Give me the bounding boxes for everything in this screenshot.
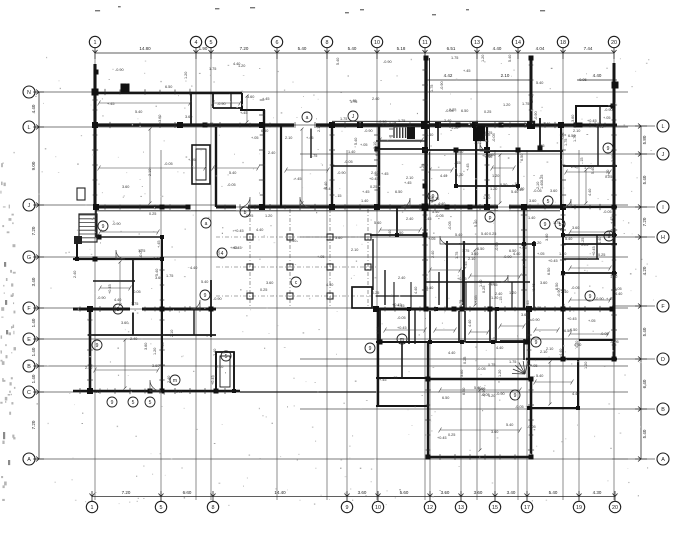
svg-text:-0.90: -0.90: [495, 242, 499, 251]
svg-text:1.75: 1.75: [166, 274, 173, 278]
svg-text:-0.05: -0.05: [164, 162, 173, 166]
svg-text:1: 1: [91, 505, 94, 511]
svg-text:2.10: 2.10: [216, 365, 223, 369]
svg-text:4.40: 4.40: [588, 189, 592, 196]
svg-text:4.40: 4.40: [562, 304, 566, 311]
svg-text:3.60: 3.60: [550, 189, 557, 193]
svg-text:3.40: 3.40: [507, 490, 516, 495]
svg-text:14.80: 14.80: [139, 46, 151, 51]
svg-text:4.40: 4.40: [559, 349, 563, 356]
svg-text:2.40: 2.40: [268, 151, 275, 155]
svg-text:3.60: 3.60: [529, 199, 536, 203]
svg-text:2.10: 2.10: [573, 129, 580, 133]
svg-text:1.20: 1.20: [503, 103, 510, 107]
svg-text:15: 15: [492, 505, 498, 511]
svg-text:4.40: 4.40: [414, 287, 418, 294]
svg-text:1.40: 1.40: [31, 347, 36, 356]
svg-text:4.42: 4.42: [444, 73, 453, 78]
svg-text:5.40: 5.40: [336, 58, 340, 65]
svg-text:-0.90: -0.90: [97, 296, 106, 300]
svg-text:+.05: +.05: [251, 136, 259, 140]
svg-text:m: m: [400, 337, 404, 343]
svg-text:-0.05: -0.05: [527, 425, 536, 429]
svg-text:1.75: 1.75: [522, 102, 529, 106]
svg-text:7.20: 7.20: [31, 226, 36, 235]
svg-text:3.60: 3.60: [266, 281, 273, 285]
svg-text:A: A: [661, 457, 665, 463]
svg-text:1.20: 1.20: [265, 214, 272, 218]
svg-text:-0.90: -0.90: [213, 297, 222, 301]
svg-text:1.75: 1.75: [455, 252, 459, 259]
svg-text:3.60: 3.60: [335, 236, 342, 240]
svg-text:+.05: +.05: [92, 390, 100, 394]
svg-text:1.20: 1.20: [498, 370, 502, 377]
svg-text:9: 9: [535, 340, 538, 346]
svg-text:0.25: 0.25: [448, 433, 455, 437]
svg-text:1.75: 1.75: [209, 67, 216, 71]
svg-text:1.20: 1.20: [584, 362, 588, 369]
svg-text:-0.05: -0.05: [515, 405, 524, 409]
svg-text:6.50: 6.50: [461, 109, 468, 113]
svg-text:4.40: 4.40: [468, 320, 472, 327]
svg-text:4.40: 4.40: [593, 73, 602, 78]
svg-text:4.40: 4.40: [388, 230, 392, 237]
svg-text:1.75: 1.75: [340, 117, 347, 121]
svg-text:9: 9: [346, 505, 349, 511]
svg-text:1.20: 1.20: [492, 174, 499, 178]
svg-text:+.45: +.45: [397, 304, 405, 308]
svg-text:-0.05: -0.05: [578, 78, 587, 82]
svg-text:-0.05: -0.05: [613, 287, 622, 291]
svg-text:4: 4: [195, 40, 198, 46]
svg-text:3.60: 3.60: [540, 281, 547, 285]
svg-text:5: 5: [547, 199, 550, 205]
svg-text:3.60: 3.60: [247, 95, 254, 99]
svg-text:4.40: 4.40: [31, 104, 36, 113]
svg-text:4.30: 4.30: [593, 490, 602, 495]
svg-text:+.45: +.45: [161, 343, 165, 351]
svg-text:+0.45: +0.45: [437, 436, 447, 440]
svg-text:+0.45: +0.45: [234, 229, 244, 233]
svg-text:3.60: 3.60: [122, 185, 129, 189]
svg-text:5.40: 5.40: [135, 110, 142, 114]
svg-text:1.75: 1.75: [459, 300, 463, 307]
svg-text:2.10: 2.10: [536, 182, 540, 189]
svg-text:1.20: 1.20: [559, 252, 566, 256]
svg-text:17: 17: [524, 505, 530, 511]
svg-text:L: L: [28, 125, 31, 131]
svg-text:+.05: +.05: [519, 246, 527, 250]
svg-text:1.20: 1.20: [488, 394, 495, 398]
svg-text:1.20: 1.20: [534, 241, 541, 245]
svg-text:2.10: 2.10: [611, 155, 615, 162]
svg-text:+.45: +.45: [526, 301, 530, 309]
svg-text:-.15: -.15: [499, 296, 503, 303]
svg-text:7.20: 7.20: [122, 490, 131, 495]
svg-text:6.50: 6.50: [395, 190, 402, 194]
svg-text:5.40: 5.40: [155, 269, 159, 276]
svg-text:1.20: 1.20: [153, 348, 157, 355]
svg-text:-.15: -.15: [580, 157, 584, 164]
svg-text:9: 9: [608, 234, 611, 240]
svg-text:5.40: 5.40: [474, 220, 478, 227]
svg-text:0.25: 0.25: [489, 232, 496, 236]
svg-text:6.51: 6.51: [447, 46, 456, 51]
svg-text:-0.05: -0.05: [152, 257, 161, 261]
svg-text:9: 9: [204, 293, 207, 299]
svg-text:6.50: 6.50: [520, 154, 524, 161]
svg-text:5: 5: [225, 354, 228, 360]
svg-text:-0.90: -0.90: [604, 108, 613, 112]
svg-text:6.50: 6.50: [261, 129, 268, 133]
svg-text:+.45: +.45: [206, 122, 214, 126]
svg-text:1.40: 1.40: [31, 318, 36, 327]
svg-text:1.75: 1.75: [350, 100, 357, 104]
svg-text:4.04: 4.04: [536, 46, 545, 51]
svg-text:+0.45: +0.45: [108, 284, 112, 294]
svg-text:19: 19: [576, 505, 582, 511]
svg-text:0.25: 0.25: [540, 175, 544, 182]
svg-text:6.50: 6.50: [500, 183, 507, 187]
svg-text:3.60: 3.60: [185, 115, 192, 119]
svg-text:+.45: +.45: [240, 111, 248, 115]
svg-text:+.45: +.45: [294, 177, 302, 181]
svg-text:13: 13: [474, 40, 480, 46]
svg-text:m: m: [173, 378, 177, 384]
svg-text:6.40: 6.40: [642, 379, 647, 388]
svg-text:-0.90: -0.90: [595, 297, 604, 301]
svg-text:+.05: +.05: [537, 252, 545, 256]
svg-text:6.50: 6.50: [456, 150, 463, 154]
svg-text:1.75: 1.75: [451, 56, 458, 60]
svg-text:+0.45: +0.45: [457, 277, 467, 281]
svg-text:6.50: 6.50: [442, 396, 449, 400]
svg-text:6.40: 6.40: [183, 490, 192, 495]
svg-text:+0.45: +0.45: [323, 187, 333, 191]
svg-text:-.15: -.15: [454, 161, 461, 165]
svg-text:+0.45: +0.45: [211, 375, 215, 385]
svg-text:3.60: 3.60: [158, 115, 162, 122]
svg-text:+.45: +.45: [230, 246, 238, 250]
svg-text:+.05: +.05: [428, 237, 436, 241]
svg-text:20: 20: [612, 505, 618, 511]
svg-text:-0.05: -0.05: [492, 133, 496, 142]
svg-text:2.10: 2.10: [285, 136, 292, 140]
svg-text:5.40: 5.40: [549, 490, 558, 495]
svg-text:-0.05: -0.05: [603, 210, 612, 214]
svg-text:+.45: +.45: [381, 172, 389, 176]
svg-text:+.05: +.05: [561, 133, 565, 141]
svg-text:5.40: 5.40: [536, 81, 543, 85]
svg-text:+.45: +.45: [464, 262, 468, 270]
svg-text:1.75: 1.75: [131, 302, 138, 306]
svg-text:5.40: 5.40: [642, 429, 647, 438]
svg-text:4.40: 4.40: [572, 392, 579, 396]
svg-text:3.60: 3.60: [571, 115, 575, 122]
svg-text:8: 8: [326, 40, 329, 46]
svg-text:7.20: 7.20: [31, 420, 36, 429]
svg-text:1.75: 1.75: [530, 96, 534, 103]
svg-text:1.40: 1.40: [543, 122, 550, 126]
svg-text:0.25: 0.25: [372, 291, 379, 295]
svg-text:-0.05: -0.05: [227, 183, 236, 187]
svg-text:6.50: 6.50: [289, 239, 296, 243]
svg-text:-.15: -.15: [391, 376, 398, 380]
svg-text:2.40: 2.40: [130, 337, 137, 341]
svg-text:A: A: [27, 457, 31, 463]
svg-text:4.40: 4.40: [493, 46, 502, 51]
svg-text:+0.45: +0.45: [369, 177, 379, 181]
svg-text:-0.90: -0.90: [531, 318, 540, 322]
svg-text:3.60: 3.60: [474, 490, 483, 495]
svg-text:6.50: 6.50: [568, 134, 575, 138]
svg-text:4.20: 4.20: [642, 266, 647, 275]
svg-text:12: 12: [427, 505, 433, 511]
svg-text:-.15: -.15: [512, 182, 519, 186]
svg-text:1.75: 1.75: [310, 154, 317, 158]
svg-text:5: 5: [132, 400, 135, 406]
svg-text:1.20: 1.20: [451, 126, 458, 130]
svg-text:E: E: [27, 337, 31, 343]
svg-text:-0.05: -0.05: [435, 214, 444, 218]
svg-text:5.40: 5.40: [591, 167, 595, 174]
svg-text:+.45: +.45: [516, 188, 524, 192]
svg-text:9: 9: [96, 343, 99, 349]
svg-text:3.60: 3.60: [521, 313, 528, 317]
svg-text:10: 10: [375, 505, 381, 511]
svg-text:+.05: +.05: [588, 319, 596, 323]
svg-text:N: N: [27, 90, 31, 96]
svg-text:+0.45: +0.45: [567, 317, 577, 321]
svg-text:4.40: 4.40: [598, 237, 602, 244]
svg-text:2.40: 2.40: [406, 217, 413, 221]
svg-text:J: J: [28, 203, 31, 209]
svg-text:+.45: +.45: [362, 190, 370, 194]
svg-text:10: 10: [374, 40, 380, 46]
svg-text:+0.45: +0.45: [548, 259, 558, 263]
svg-text:+.45: +.45: [463, 69, 471, 73]
svg-text:2.40: 2.40: [561, 290, 568, 294]
svg-text:0.25: 0.25: [260, 288, 267, 292]
svg-text:-0.90: -0.90: [557, 288, 561, 297]
svg-text:6.50: 6.50: [165, 85, 172, 89]
svg-text:5.40: 5.40: [506, 423, 513, 427]
svg-text:0.25: 0.25: [463, 357, 467, 364]
svg-text:D: D: [661, 357, 665, 363]
svg-text:4.40: 4.40: [574, 343, 581, 347]
svg-text:6.50: 6.50: [396, 231, 403, 235]
svg-text:3.60: 3.60: [460, 370, 464, 377]
svg-text:+0.45: +0.45: [532, 283, 536, 293]
svg-text:4.40: 4.40: [496, 346, 503, 350]
svg-text:-0.05: -0.05: [448, 221, 452, 230]
svg-text:5: 5: [210, 40, 213, 46]
svg-text:2.40: 2.40: [73, 271, 77, 278]
svg-text:1.40: 1.40: [479, 280, 483, 287]
svg-text:0.25: 0.25: [484, 110, 491, 114]
svg-text:B: B: [661, 407, 665, 413]
svg-text:-0.90: -0.90: [364, 129, 373, 133]
svg-text:2.10: 2.10: [540, 350, 547, 354]
svg-text:+.05: +.05: [188, 158, 196, 162]
svg-text:11: 11: [422, 40, 428, 46]
svg-text:6.50: 6.50: [376, 327, 380, 334]
svg-text:5.40: 5.40: [481, 232, 488, 236]
svg-text:+.45: +.45: [157, 241, 161, 249]
svg-text:-0.90: -0.90: [217, 102, 226, 106]
svg-text:1.40: 1.40: [483, 196, 490, 200]
svg-text:1.75: 1.75: [462, 249, 469, 253]
svg-text:0.25: 0.25: [370, 185, 377, 189]
svg-text:+.45: +.45: [404, 181, 412, 185]
svg-text:+.45: +.45: [262, 97, 270, 101]
svg-text:-0.05: -0.05: [610, 340, 619, 344]
svg-text:9: 9: [589, 294, 592, 300]
svg-text:G: G: [27, 255, 31, 261]
svg-text:a: a: [205, 221, 208, 227]
svg-text:-.15: -.15: [459, 241, 466, 245]
svg-text:2.40: 2.40: [398, 276, 405, 280]
svg-text:1: 1: [94, 40, 97, 46]
svg-text:14.40: 14.40: [274, 490, 286, 495]
svg-text:3.60: 3.60: [358, 490, 367, 495]
svg-text:1.20: 1.20: [238, 64, 245, 68]
svg-text:9: 9: [432, 194, 435, 200]
svg-text:1.20: 1.20: [491, 296, 498, 300]
svg-text:+.05: +.05: [530, 364, 538, 368]
svg-text:5.40: 5.40: [354, 138, 358, 145]
svg-text:6.50: 6.50: [462, 388, 466, 395]
svg-text:+0.45: +0.45: [397, 326, 407, 330]
svg-text:-0.05: -0.05: [397, 316, 406, 320]
svg-text:-0.90: -0.90: [337, 171, 346, 175]
svg-text:-.15: -.15: [335, 194, 342, 198]
svg-text:b: b: [244, 210, 247, 216]
svg-text:-0.90: -0.90: [383, 60, 392, 64]
svg-text:1.20: 1.20: [490, 187, 497, 191]
svg-text:C: C: [27, 390, 31, 396]
svg-text:5.40: 5.40: [642, 175, 647, 184]
svg-text:4.40: 4.40: [485, 155, 492, 159]
svg-text:3.60: 3.60: [144, 343, 148, 350]
svg-text:2.10: 2.10: [170, 330, 174, 337]
svg-text:1.20: 1.20: [481, 55, 485, 62]
svg-text:5.40: 5.40: [565, 237, 572, 241]
svg-text:5.40: 5.40: [455, 233, 462, 237]
svg-text:4.40: 4.40: [175, 390, 182, 394]
svg-text:4.40: 4.40: [256, 228, 263, 232]
svg-text:H: H: [661, 235, 665, 241]
svg-text:3: 3: [117, 307, 120, 313]
svg-text:1.40: 1.40: [610, 275, 617, 279]
svg-text:-0.05: -0.05: [571, 286, 580, 290]
svg-text:-0.05: -0.05: [344, 160, 353, 164]
svg-text:2.10: 2.10: [351, 248, 358, 252]
svg-text:5: 5: [149, 400, 152, 406]
svg-text:I: I: [662, 205, 664, 211]
svg-text:-0.90: -0.90: [534, 111, 538, 120]
svg-text:2.40: 2.40: [213, 349, 217, 356]
svg-text:2.40: 2.40: [431, 251, 435, 258]
svg-text:5.60: 5.60: [400, 490, 409, 495]
svg-text:6.50: 6.50: [477, 247, 484, 251]
svg-text:0.25: 0.25: [149, 212, 156, 216]
svg-text:2.10: 2.10: [468, 257, 475, 261]
svg-text:1.20: 1.20: [509, 291, 516, 295]
svg-text:2.40: 2.40: [371, 171, 378, 175]
svg-text:6.50: 6.50: [570, 328, 577, 332]
svg-text:5.40: 5.40: [229, 171, 236, 175]
svg-text:+.45: +.45: [466, 164, 470, 172]
svg-text:3.60: 3.60: [471, 252, 478, 256]
svg-text:18: 18: [560, 40, 566, 46]
svg-text:+.45: +.45: [107, 102, 115, 106]
svg-text:9: 9: [369, 346, 372, 352]
svg-text:3.60: 3.60: [491, 430, 498, 434]
svg-text:1.75: 1.75: [398, 119, 405, 123]
svg-text:+.45: +.45: [306, 136, 314, 140]
svg-text:-0.90: -0.90: [112, 222, 121, 226]
svg-text:5: 5: [160, 505, 163, 511]
svg-text:5.40: 5.40: [508, 55, 512, 62]
svg-text:4.40: 4.40: [438, 202, 445, 206]
svg-text:5.40: 5.40: [348, 46, 357, 51]
svg-text:3.40: 3.40: [31, 277, 36, 286]
svg-text:-.15: -.15: [491, 283, 498, 287]
svg-text:2.10: 2.10: [406, 176, 413, 180]
svg-text:13: 13: [458, 505, 464, 511]
svg-text:1.40: 1.40: [31, 374, 36, 383]
svg-text:+.45: +.45: [537, 144, 545, 148]
svg-text:-0.90: -0.90: [440, 81, 444, 90]
svg-text:8: 8: [212, 505, 215, 511]
svg-text:4.40: 4.40: [114, 298, 121, 302]
svg-text:5.40: 5.40: [642, 327, 647, 336]
svg-text:B: B: [27, 364, 31, 370]
svg-text:7.44: 7.44: [584, 46, 593, 51]
svg-text:5.40: 5.40: [374, 221, 381, 225]
svg-text:-0.05: -0.05: [139, 249, 143, 258]
svg-text:1.40: 1.40: [361, 199, 368, 203]
svg-text:4.40: 4.40: [326, 283, 333, 287]
svg-text:J: J: [662, 152, 665, 158]
svg-text:9: 9: [102, 224, 105, 230]
svg-text:1.75: 1.75: [479, 139, 486, 143]
svg-text:+.05: +.05: [475, 121, 479, 129]
svg-text:1.75: 1.75: [509, 360, 516, 364]
svg-text:+.05: +.05: [360, 143, 368, 147]
svg-text:4.40: 4.40: [190, 266, 197, 270]
svg-text:6.50: 6.50: [547, 268, 551, 275]
svg-text:+.05: +.05: [603, 116, 611, 120]
svg-text:+.05: +.05: [474, 296, 478, 304]
svg-text:2.40: 2.40: [372, 97, 379, 101]
svg-text:2.40: 2.40: [85, 366, 92, 370]
svg-text:3.60: 3.60: [572, 226, 579, 230]
svg-text:5.80: 5.80: [642, 135, 647, 144]
svg-text:6: 6: [276, 40, 279, 46]
svg-text:p: p: [489, 215, 492, 221]
svg-text:2.10: 2.10: [373, 142, 377, 149]
svg-text:1.75: 1.75: [430, 85, 434, 92]
svg-text:5.40: 5.40: [426, 286, 433, 290]
svg-text:3.60: 3.60: [152, 364, 159, 368]
svg-text:+.05: +.05: [317, 255, 325, 259]
svg-text:9.00: 9.00: [31, 161, 36, 170]
svg-text:1.40: 1.40: [528, 216, 535, 220]
svg-text:4.40: 4.40: [382, 123, 389, 127]
svg-text:L: L: [662, 124, 665, 130]
